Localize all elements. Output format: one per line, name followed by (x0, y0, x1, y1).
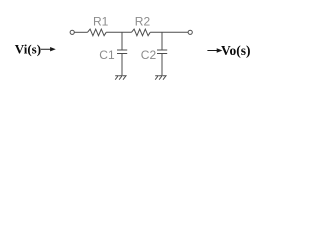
wire (74, 31, 87, 33)
node Vo output terminal (188, 30, 192, 34)
svg-text:Vi(s): Vi(s) (15, 42, 41, 57)
capacitor C2 (157, 49, 167, 51)
arrow (input) (41, 48, 55, 51)
wire C2 branch upper (161, 32, 163, 50)
ground (C2) (155, 76, 166, 80)
node Vi input terminal (70, 30, 74, 34)
ground (C1) (115, 76, 126, 80)
wire (150, 31, 188, 33)
wire C1 branch lower (121, 54, 123, 76)
svg-text:R2: R2 (135, 14, 151, 28)
resistor R2 (132, 29, 151, 36)
wire (106, 31, 131, 33)
svg-text:C2: C2 (141, 48, 157, 62)
wire C2 branch lower (161, 54, 163, 76)
arrow (output) (207, 49, 221, 52)
svg-text:R1: R1 (93, 14, 109, 28)
resistor R1 (88, 29, 107, 36)
capacitor C1 (117, 49, 127, 51)
svg-text:C1: C1 (99, 48, 115, 62)
svg-text:Vo(s): Vo(s) (221, 43, 251, 58)
wire C1 branch upper (121, 32, 123, 50)
